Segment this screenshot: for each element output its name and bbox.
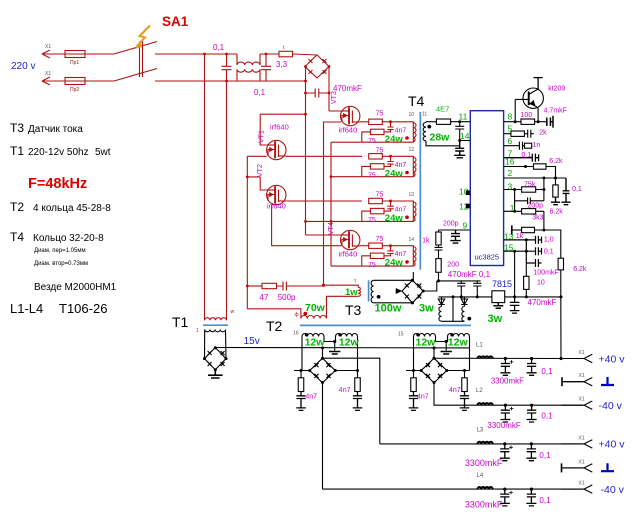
svg-text:w: w — [231, 309, 235, 315]
core T2 vertical — [419, 112, 421, 270]
cap 100mkF — [526, 240, 541, 267]
core T3b — [300, 324, 471, 326]
capacitor pin11-14 — [455, 122, 464, 141]
diode VD8 — [461, 297, 467, 307]
svg-text:L3: L3 — [477, 428, 484, 434]
resistor 6.2k to gnd — [551, 178, 560, 205]
svg-text:1n: 1n — [533, 142, 541, 149]
bridge rectifier 3w — [397, 280, 424, 303]
svg-text:+40 v: +40 v — [599, 439, 626, 451]
wire caps top rail — [437, 280, 481, 282]
winding 12w #1 — [302, 334, 324, 342]
wire pairB outer — [414, 342, 470, 371]
capacitor 0,1 — [473, 281, 481, 297]
ground T1 — [208, 370, 223, 378]
svg-text:16: 16 — [293, 331, 299, 337]
capacitor 3300mkF row6 — [500, 489, 510, 506]
connector -40 row6 — [562, 485, 593, 493]
svg-text:VT3: VT3 — [331, 91, 338, 104]
svg-text:0,1: 0,1 — [539, 496, 551, 505]
gate network row4 — [362, 243, 416, 266]
winding 12w #3 — [414, 334, 436, 342]
capacitor C1 0,1 — [222, 54, 232, 81]
wire center tap pair A — [324, 342, 336, 351]
svg-text:1: 1 — [196, 328, 199, 334]
svg-text:0,1: 0,1 — [572, 186, 582, 193]
svg-text:12w: 12w — [416, 336, 437, 348]
bridge pair B — [421, 358, 447, 383]
svg-text:irf640: irf640 — [339, 250, 358, 259]
wire bridge out — [423, 281, 437, 291]
svg-text:12: 12 — [409, 147, 415, 153]
svg-text:3300mkF: 3300mkF — [465, 458, 503, 468]
svg-text:T3: T3 — [10, 121, 24, 135]
svg-text:12w: 12w — [448, 336, 469, 348]
wire MOSFET D feed — [306, 234, 342, 236]
gate network row3 — [362, 198, 416, 221]
svg-text:0,1: 0,1 — [522, 152, 532, 159]
capacitor 200p pin9 — [450, 230, 460, 243]
svg-text:F=48kHz: F=48kHz — [28, 176, 87, 192]
wire bridgeA top out — [323, 348, 380, 444]
capacitor 3300mkF row1 — [500, 359, 510, 376]
svg-text:3w: 3w — [419, 303, 434, 315]
capacitor 0,1 to gnd — [561, 178, 570, 205]
capacitor 470mkF bus — [306, 89, 330, 98]
svg-text:irf640: irf640 — [267, 202, 286, 211]
svg-text:8: 8 — [508, 111, 513, 121]
svg-text:5: 5 — [508, 124, 513, 134]
svg-text:0,1: 0,1 — [541, 411, 553, 420]
svg-text:1w: 1w — [345, 287, 358, 298]
capacitor C2 — [261, 54, 271, 81]
inductor L1 — [478, 356, 493, 358]
svg-text:L1: L1 — [476, 343, 483, 349]
svg-text:6.2k: 6.2k — [573, 266, 587, 273]
svg-text:0,1: 0,1 — [539, 451, 551, 460]
svg-text:1: 1 — [510, 203, 515, 213]
svg-text:T4: T4 — [10, 230, 24, 244]
wire T1 primary feeds — [205, 54, 227, 320]
transistor VT3 (top right irf640) — [341, 106, 360, 125]
svg-text:5wt: 5wt — [95, 147, 111, 158]
winding 12w #2 — [336, 334, 358, 342]
svg-text:Т106-26: Т106-26 — [59, 301, 107, 316]
resistor 1k row — [512, 225, 561, 258]
svg-text:24w: 24w — [385, 168, 404, 179]
svg-text:28w: 28w — [430, 131, 451, 143]
pin6 RC — [504, 142, 532, 150]
svg-text:4n7: 4n7 — [339, 387, 351, 394]
svg-text:Диам. втор=0.73мм: Диам. втор=0.73мм — [34, 261, 88, 267]
svg-text:75: 75 — [368, 217, 376, 224]
svg-text:X1: X1 — [579, 397, 585, 403]
svg-text:24w: 24w — [385, 134, 404, 145]
resistor 10 — [524, 263, 529, 297]
svg-text:13: 13 — [409, 192, 415, 198]
transistor kt209 — [515, 78, 543, 122]
svg-text:L2: L2 — [476, 388, 483, 394]
svg-text:10: 10 — [537, 280, 545, 287]
svg-text:100: 100 — [521, 112, 533, 119]
wire MOSFET A node — [324, 122, 369, 285]
svg-text:11: 11 — [459, 112, 468, 122]
svg-text:X1: X1 — [579, 481, 585, 487]
svg-text:Пр2: Пр2 — [70, 87, 79, 93]
svg-text:SA1: SA1 — [162, 14, 189, 29]
wire VT1 feed — [260, 114, 305, 145]
svg-text:0,1: 0,1 — [213, 43, 225, 52]
svg-text:T2: T2 — [266, 318, 283, 334]
svg-text:irf640: irf640 — [339, 126, 358, 135]
svg-text:15: 15 — [504, 242, 514, 252]
svg-text:2: 2 — [508, 168, 513, 178]
svg-text:T2: T2 — [10, 200, 24, 214]
svg-text:3300mkF: 3300mkF — [491, 377, 524, 386]
svg-text:L1-L4: L1-L4 — [10, 301, 43, 316]
svg-text:T1: T1 — [172, 314, 189, 330]
wire DC verticals — [306, 67, 342, 236]
svg-text:X1: X1 — [45, 44, 51, 50]
svg-text:470mkF: 470mkF — [528, 298, 557, 307]
diode VD7 — [438, 297, 444, 307]
wire bridgeB top out — [434, 348, 584, 359]
svg-text:75: 75 — [368, 173, 376, 180]
svg-text:200p: 200p — [528, 203, 544, 210]
svg-text:4n7: 4n7 — [449, 387, 461, 394]
svg-text:Кольцо 32-20-8: Кольцо 32-20-8 — [33, 233, 104, 244]
fuse F2 — [65, 78, 114, 85]
connector gnd row5 — [562, 463, 593, 472]
ballast chain B-right — [460, 371, 470, 411]
svg-text:200: 200 — [447, 262, 459, 269]
ballast chain B-left — [409, 371, 419, 411]
svg-text:220-12v 50hz: 220-12v 50hz — [28, 147, 89, 158]
connector gnd row2 — [562, 377, 593, 386]
svg-text:470mkF 0,1: 470mkF 0,1 — [448, 270, 491, 279]
svg-text:6.2k: 6.2k — [549, 158, 563, 165]
svg-text:24w: 24w — [385, 258, 404, 269]
wire 7815 input rail — [439, 296, 492, 298]
svg-text:-40 v: -40 v — [601, 484, 625, 496]
svg-text:14: 14 — [409, 237, 415, 243]
switch SA1 — [114, 42, 227, 82]
transistor VT1 irf640 — [267, 140, 286, 159]
svg-text:VT1: VT1 — [259, 130, 266, 143]
transistor VT2 irf640 — [267, 185, 286, 204]
svg-text:X1: X1 — [579, 373, 585, 379]
lightning bolt — [135, 26, 150, 50]
svg-text:70w: 70w — [305, 302, 326, 314]
svg-text:15: 15 — [398, 332, 404, 338]
svg-text:14: 14 — [460, 131, 470, 141]
pin15 cap 0,1 — [504, 247, 542, 255]
transistor VT4 (bottom right irf640) — [341, 230, 360, 249]
svg-text:Диам. пер=1.05мм: Диам. пер=1.05мм — [34, 248, 86, 254]
connector X1 top — [42, 50, 65, 58]
capacitor 0,1 row4 — [526, 444, 536, 461]
svg-text:Датчик тока: Датчик тока — [28, 124, 83, 135]
svg-text:16: 16 — [505, 157, 515, 167]
wire lower rails — [306, 142, 362, 266]
pin10 pin12 stubs — [466, 191, 470, 208]
svg-text:4.7mkF: 4.7mkF — [544, 107, 567, 114]
svg-text:X1: X1 — [579, 459, 585, 465]
svg-text:-40 v: -40 v — [599, 400, 623, 412]
wire pin14 — [460, 140, 471, 142]
pin5 RC — [504, 130, 534, 138]
svg-text:uc3825: uc3825 — [475, 253, 500, 262]
capacitor 500p — [277, 282, 324, 291]
gate network row1 — [362, 119, 416, 142]
capacitor 3300mkF row3 — [500, 405, 510, 422]
connector +40 row4 — [562, 440, 593, 448]
resistor 3,3 — [279, 51, 293, 57]
winding 28w T4 — [423, 122, 460, 146]
resistor 4E7 — [426, 119, 470, 124]
winding 12w #4 — [448, 334, 470, 342]
capacitor 470mkF — [457, 281, 465, 297]
connector +40 row1 — [562, 354, 593, 362]
svg-text:100mkF: 100mkF — [533, 270, 558, 277]
winding 100w — [371, 280, 412, 303]
svg-text:ф: ф — [295, 312, 299, 318]
wire L4 row — [323, 488, 584, 490]
regulator 7815 — [492, 291, 505, 309]
resistor 200 — [436, 259, 441, 281]
winding T1 secondary — [205, 330, 226, 332]
wire bridgeB bottom out — [434, 383, 584, 405]
wire +40 sense — [560, 297, 562, 359]
svg-text:Пр1: Пр1 — [70, 60, 79, 66]
inductor L3 — [478, 442, 493, 444]
svg-text:200p: 200p — [443, 220, 459, 227]
pin2 wire — [504, 177, 566, 179]
svg-text:T4: T4 — [408, 93, 425, 109]
svg-text:13: 13 — [504, 232, 514, 242]
svg-text:X1: X1 — [579, 350, 585, 356]
capacitor 0,1 row6 — [526, 489, 536, 506]
svg-text:75k: 75k — [524, 181, 536, 188]
svg-text:X1: X1 — [579, 435, 585, 441]
svg-text:4n7: 4n7 — [417, 394, 429, 401]
wire bottom rail to bridge — [227, 80, 306, 82]
svg-text:6.2k: 6.2k — [550, 209, 564, 216]
svg-text:75: 75 — [376, 192, 384, 199]
svg-text:10: 10 — [409, 112, 415, 118]
svg-text:3w: 3w — [488, 313, 503, 325]
svg-text:75: 75 — [376, 147, 384, 154]
choke L common-mode — [237, 54, 260, 81]
svg-text:1k: 1k — [422, 238, 430, 245]
core T1 — [203, 324, 228, 326]
pin7 cap 0,1 — [504, 154, 539, 162]
resistor 6.2k vert — [558, 258, 563, 297]
pin1 resistor 3k3 — [504, 209, 544, 230]
connector -40 row3 — [562, 401, 593, 409]
wire pin15 down — [514, 251, 516, 297]
svg-text:Везде М2000НМ1: Везде М2000НМ1 — [34, 282, 117, 293]
svg-text:6: 6 — [508, 136, 513, 146]
svg-text:1,0: 1,0 — [544, 237, 554, 244]
capacitor series — [435, 245, 443, 259]
wire bridgeA bottom out — [322, 383, 324, 489]
svg-text:0,1: 0,1 — [254, 88, 266, 97]
ballast chain A-right — [353, 371, 363, 411]
winding T1 primary — [205, 318, 227, 321]
ballast chain A-left — [296, 371, 306, 411]
svg-text:VT2: VT2 — [257, 164, 264, 177]
svg-text:7815: 7815 — [492, 279, 512, 289]
svg-text:3300mkF: 3300mkF — [465, 500, 503, 510]
svg-text:0,1: 0,1 — [541, 367, 553, 376]
wire top rail — [205, 54, 318, 55]
capacitor 0,1 row3 — [527, 405, 537, 422]
svg-text:3300mkF: 3300mkF — [487, 421, 520, 430]
inductor L2 — [478, 403, 493, 405]
inductor L4 — [478, 487, 493, 489]
svg-text:T1: T1 — [10, 144, 24, 158]
svg-text:12w: 12w — [339, 336, 360, 348]
svg-text:11: 11 — [422, 112, 427, 118]
capacitor pin14-gnd — [454, 141, 465, 158]
wire 15v rail — [215, 347, 469, 349]
svg-text:irf640: irf640 — [270, 123, 289, 132]
bridge rectifier VD6 — [205, 348, 227, 370]
wire VT2 feed — [247, 177, 266, 190]
svg-text:75: 75 — [368, 138, 376, 145]
svg-text:9: 9 — [463, 220, 468, 230]
svg-text:kt209: kt209 — [548, 85, 565, 92]
capacitor 470mkF out — [510, 297, 520, 313]
svg-text:15v: 15v — [244, 336, 260, 347]
svg-text:12w: 12w — [305, 336, 326, 348]
winding 3w center-tapped — [439, 297, 465, 321]
capacitor 3300mkF row4 — [500, 444, 510, 461]
svg-text:3,3: 3,3 — [276, 60, 288, 69]
svg-text:500p: 500p — [278, 293, 296, 302]
wire pin9 — [439, 229, 471, 231]
resistor 1k pin9 — [436, 230, 441, 245]
wire rows to networks — [360, 245, 369, 247]
svg-text:3k3: 3k3 — [532, 214, 543, 221]
svg-text:4 кольца 45-28-8: 4 кольца 45-28-8 — [33, 203, 111, 214]
svg-text:47: 47 — [260, 293, 269, 302]
winding 1w T3 primary — [324, 285, 361, 318]
svg-text:+40 v: +40 v — [599, 353, 626, 365]
svg-text:VT4: VT4 — [328, 222, 335, 235]
capacitor 4.7mkF — [547, 116, 553, 128]
wire L3 row — [380, 443, 584, 445]
svg-text:T3: T3 — [345, 302, 362, 318]
winding 70w T2 primary — [247, 296, 326, 318]
svg-text:0,1: 0,1 — [544, 248, 554, 255]
bridge pair A — [310, 358, 336, 383]
pin16 resistor 6.2k — [504, 164, 556, 178]
svg-text:100w: 100w — [375, 303, 402, 315]
svg-text:X1: X1 — [45, 71, 51, 77]
fuse F1 — [65, 51, 114, 58]
gate network row2 — [362, 154, 416, 177]
capacitor 0,1 row1 — [527, 359, 537, 376]
svg-text:75: 75 — [376, 111, 384, 118]
wire VT2 output — [272, 201, 362, 246]
svg-text:75: 75 — [368, 262, 376, 269]
pin13 cap 1,0 — [504, 236, 542, 244]
pin8 wire + resistor 100 — [504, 119, 547, 124]
wire VT1 source rail — [247, 156, 362, 308]
wire pairA outer — [302, 342, 358, 371]
svg-text:4E7: 4E7 — [436, 105, 449, 114]
core T3 vertical — [368, 280, 370, 301]
wire 7815 output — [505, 296, 561, 298]
svg-text:75: 75 — [376, 236, 384, 243]
svg-text:1k: 1k — [516, 233, 524, 240]
svg-text:L4: L4 — [477, 473, 484, 479]
svg-text:2k: 2k — [539, 130, 547, 137]
pin3 network 75k + 200p — [504, 178, 544, 211]
svg-text:4n7: 4n7 — [305, 394, 317, 401]
svg-text:3: 3 — [508, 182, 513, 192]
connector X1 bottom — [42, 77, 65, 85]
resistor 47 — [247, 283, 276, 288]
svg-text:220 v: 220 v — [11, 61, 35, 72]
wire center tap pair B — [436, 342, 448, 351]
svg-text:24w: 24w — [385, 213, 404, 224]
